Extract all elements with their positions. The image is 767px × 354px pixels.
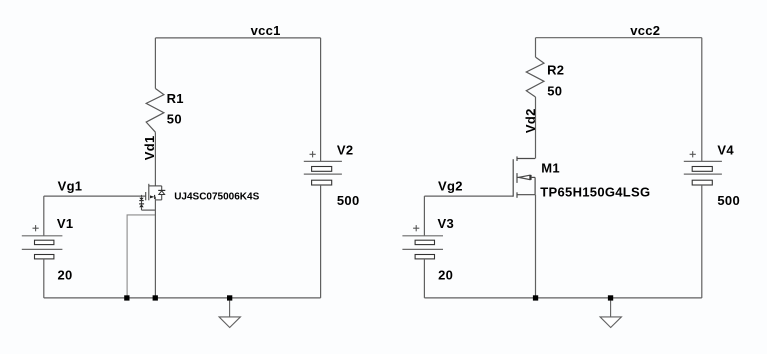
plate long 1	[22, 235, 63, 237]
svg-text:UJ4SC075006K4S: UJ4SC075006K4S	[174, 191, 259, 202]
plate box 1	[692, 167, 712, 172]
channel seg bulk	[516, 173, 518, 183]
drain stub	[517, 158, 535, 160]
ground (left)	[219, 301, 240, 328]
wire V2 plus lead	[320, 38, 322, 161]
plate long 2	[684, 173, 722, 175]
bulk-source tie	[534, 177, 536, 194]
plus sign	[413, 227, 419, 229]
wire kelvin source	[127, 215, 155, 298]
svg-text:500: 500	[717, 193, 740, 208]
svg-text:Vd2: Vd2	[523, 108, 538, 133]
svg-text:Vg2: Vg2	[438, 179, 463, 194]
channel seg source	[516, 192, 518, 198]
svg-text:V3: V3	[438, 216, 455, 231]
svg-text:R2: R2	[547, 63, 564, 78]
body diode D1	[161, 186, 163, 191]
resistor R2	[526, 57, 544, 97]
svg-text:50: 50	[167, 111, 182, 126]
wire R2 to M1 drain (node Vd2)	[535, 97, 537, 159]
wire V4 plus lead	[701, 38, 703, 162]
svg-text:R1: R1	[167, 91, 184, 106]
junction at kelvin/rail	[124, 295, 129, 300]
wire V1 minus lead	[43, 259, 45, 298]
voltage source V2	[304, 38, 360, 298]
plus sign	[690, 153, 696, 155]
transistor M1	[513, 156, 535, 197]
wire vcc1 top rail	[155, 37, 320, 39]
plate long 2	[304, 173, 342, 175]
svg-text:V1: V1	[57, 216, 74, 231]
svg-text:20: 20	[58, 267, 73, 282]
plate box 2	[312, 180, 332, 185]
plate box 1	[415, 240, 434, 244]
gate-return wire	[142, 209, 156, 211]
ground (right)	[600, 301, 621, 328]
gate bar	[512, 159, 514, 197]
transistor Q1 (SiC FET symbol)	[139, 184, 165, 210]
plus sign	[33, 227, 39, 229]
wire M1 source to rail	[535, 195, 537, 298]
wire gate of M1 (node Vg2)	[424, 195, 513, 197]
wire V4 minus lead	[701, 185, 703, 298]
wire bottom rail left	[44, 297, 321, 299]
junction at M1 source/rail	[533, 295, 538, 300]
channel bar	[148, 184, 150, 201]
svg-text:V4: V4	[717, 142, 734, 157]
svg-text:M1: M1	[541, 161, 560, 176]
svg-text:Vd1: Vd1	[142, 135, 157, 160]
plate long 1	[304, 160, 342, 162]
wire gate of Q1 (node Vg1)	[44, 195, 146, 197]
plate box 2	[692, 180, 712, 185]
source arrow	[150, 195, 154, 198]
plate box 1	[312, 167, 332, 172]
wire Q1 source to rail	[154, 197, 156, 298]
drain stub	[149, 185, 162, 187]
svg-text:50: 50	[547, 83, 562, 98]
plate long 2	[22, 248, 63, 250]
junction at source/rail	[153, 295, 158, 300]
wire vcc1 to R1	[154, 38, 156, 89]
plate box 2	[35, 255, 54, 259]
svg-text:V2: V2	[337, 142, 354, 157]
wire bottom rail right	[424, 297, 701, 299]
plate long 2	[402, 248, 443, 250]
wire V2 minus lead	[320, 185, 322, 298]
wire V1 plus lead	[43, 196, 45, 236]
bulk stub with arrow	[517, 176, 520, 178]
svg-text:TP65H150G4LSG: TP65H150G4LSG	[540, 185, 650, 200]
channel seg drain	[516, 156, 518, 161]
svg-text:vcc1: vcc1	[251, 23, 281, 38]
svg-text:20: 20	[438, 267, 453, 282]
wire V3 plus lead	[423, 196, 425, 236]
wire R1 to Q1 drain (node Vd1)	[154, 132, 156, 186]
plate long 1	[402, 235, 443, 237]
plate box 2	[415, 255, 434, 259]
svg-text:vcc2: vcc2	[630, 23, 660, 38]
gate bar	[145, 192, 147, 200]
source stub	[517, 194, 535, 196]
svg-text:Vg1: Vg1	[58, 179, 83, 194]
resistor R1	[146, 89, 164, 133]
wire vcc2 top rail	[536, 37, 702, 39]
voltage source V3	[402, 196, 454, 298]
gate ESD diodes	[141, 195, 143, 198]
junction at ground/rail	[227, 295, 232, 300]
voltage source V1	[22, 196, 74, 298]
junction at ground/rail (right)	[608, 295, 613, 300]
plate box 1	[35, 240, 54, 244]
wire vcc2 to R2	[535, 38, 537, 57]
voltage source V4	[684, 38, 740, 298]
plate long 1	[684, 160, 722, 162]
svg-text:500: 500	[337, 193, 360, 208]
plus sign	[310, 153, 316, 155]
wire V3 minus lead	[423, 259, 425, 298]
